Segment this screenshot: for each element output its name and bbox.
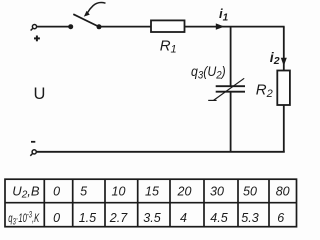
svg-text:50: 50	[243, 184, 257, 198]
bottom wire	[36, 151, 284, 153]
resistor R2	[277, 71, 290, 106]
switch actuation arrow (curved)	[84, 3, 106, 17]
svg-text:5.3: 5.3	[241, 211, 258, 225]
svg-text:0: 0	[53, 211, 60, 225]
svg-text:5: 5	[80, 184, 87, 198]
wire: plus terminal to switch left contact	[37, 26, 69, 28]
table horizontal divider	[5, 202, 297, 204]
svg-text:15: 15	[145, 184, 159, 198]
svg-text:2.7: 2.7	[109, 211, 128, 225]
wire: R1 to top-right corner	[185, 26, 285, 28]
terminal minus (open circle, bottom left)	[30, 150, 36, 156]
svg-text:0: 0	[53, 184, 60, 198]
wire: right branch lower segment	[283, 105, 285, 153]
svg-text:1.5: 1.5	[79, 211, 96, 225]
svg-text:6: 6	[277, 211, 284, 225]
svg-text:10: 10	[112, 184, 126, 198]
switch left contact dot	[68, 24, 73, 29]
terminal plus (open circle, top left)	[31, 25, 37, 31]
switch blade	[73, 14, 100, 27]
table column line 5	[169, 179, 171, 227]
table column line 3	[104, 179, 106, 227]
switch right contact dot	[97, 24, 102, 29]
svg-text:20: 20	[177, 184, 192, 198]
table column line 8	[268, 179, 270, 227]
wire: middle branch upper segment	[230, 26, 232, 86]
plus sign	[34, 36, 40, 42]
current arrow i2	[281, 58, 287, 66]
nonlinear capacitor slash	[208, 78, 244, 100]
capacitor q3 upper plate	[216, 85, 245, 87]
minus sign	[31, 141, 35, 143]
table column line 1	[43, 179, 45, 227]
capacitor q3 lower plate	[216, 91, 245, 93]
table column line 2	[72, 179, 74, 227]
svg-text:3.5: 3.5	[143, 211, 160, 225]
table column line 7	[237, 179, 239, 227]
svg-text:30: 30	[210, 184, 224, 198]
wire: right branch upper segment	[283, 27, 285, 71]
resistor R1	[151, 20, 185, 32]
table row2 values	[53, 211, 284, 225]
wire: middle branch lower segment	[230, 92, 232, 153]
table column line 6	[203, 179, 205, 227]
table outer border	[5, 179, 297, 227]
svg-text:4: 4	[180, 211, 187, 225]
table row1 values	[53, 184, 290, 198]
svg-text:80: 80	[276, 184, 290, 198]
svg-text:4.5: 4.5	[210, 211, 227, 225]
wire: switch to R1	[99, 26, 151, 28]
svg-text:U: U	[34, 85, 46, 103]
current arrow i1	[216, 23, 225, 29]
table column line 4	[137, 179, 139, 227]
